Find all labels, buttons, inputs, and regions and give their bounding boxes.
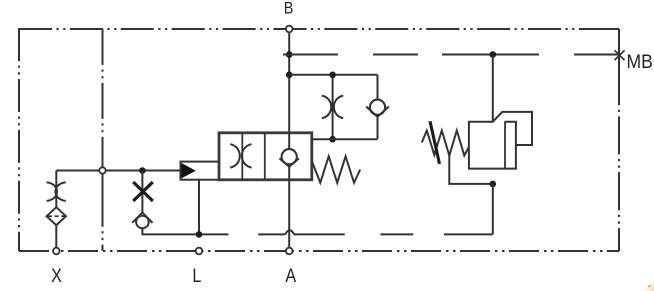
port A (286, 248, 293, 255)
wire: relief outlet drop to drain line (492, 184, 494, 235)
junction relief supply (490, 51, 497, 58)
pilot/gauge line B to MB (dashed) (283, 54, 338, 56)
relief valve spring (422, 131, 469, 156)
relief valve body (469, 122, 516, 169)
check valve in branch (ball with seat above) (136, 216, 149, 229)
section boundary dash at pilot port (102, 155, 104, 193)
wire: bypass orifice leg (332, 75, 334, 139)
port B (286, 26, 293, 33)
drain line to L (dashed) (258, 233, 285, 235)
main valve body (219, 133, 312, 180)
junction relief drain (490, 181, 497, 188)
svg-text:MB: MB (627, 50, 653, 72)
check valve in bypass (ball and seat) (370, 100, 385, 115)
wire: bypass bottom to valve body (312, 138, 378, 140)
wire: relief valve supply drop (492, 55, 494, 122)
enclosure right boundary upper segment (solid through MB) (618, 29, 620, 103)
wire: pilot box drain to L (198, 180, 200, 235)
port L (196, 248, 203, 255)
valve return spring (312, 156, 360, 183)
enclosure top boundary corner dash (597, 28, 619, 30)
junction L drain (196, 231, 203, 238)
watermark corner blob (640, 278, 654, 291)
orifice in X line (47, 182, 57, 201)
valve section divider 2 (264, 133, 266, 180)
throttle in bypass leg (322, 96, 331, 119)
junction bypass bottom (329, 136, 336, 143)
port MB plug marker (615, 50, 625, 60)
wire: bypass check valve leg (377, 75, 379, 100)
plugged orifice (X symbol) (133, 182, 153, 201)
enclosure top boundary (phantom line) (19, 28, 619, 30)
junction B line / gauge line (286, 51, 293, 58)
enclosure right boundary lower segment (phantom line) (618, 103, 620, 251)
wire: X pilot riser (55, 225, 57, 251)
crossover hop over A line (285, 230, 294, 234)
enclosure left boundary (phantom line) (18, 28, 20, 251)
svg-text:A: A (285, 265, 296, 287)
pilot actuator triangle (hydraulic pilot) (181, 163, 195, 178)
junction bypass top (329, 72, 336, 79)
wire: relief spring chamber drain (449, 156, 493, 184)
wire: B to A main line (288, 29, 290, 149)
relief valve adjustment stroke (430, 121, 440, 164)
relief valve pilot stage box (493, 112, 532, 145)
wire: branch down from pilot line to L drain (141, 171, 143, 214)
port X (53, 248, 60, 255)
wire: bypass branch top (289, 74, 377, 76)
throttle arcs on divider 1 (230, 144, 240, 167)
pilot actuator box (181, 162, 220, 180)
junction B line / bypass branch (286, 72, 293, 79)
filter in X line (47, 207, 66, 225)
watermark arrow tip (648, 284, 652, 288)
relief valve internal divider (504, 122, 506, 169)
valve section divider 1 (241, 133, 243, 180)
svg-text:B: B (284, 0, 294, 18)
svg-text:L: L (192, 265, 201, 287)
wire: pilot line X to pilot actuator (56, 170, 180, 172)
internal section boundary (vertical phantom line) (102, 29, 104, 251)
wire: check valve outlet to drain line (142, 228, 228, 234)
node: port opening on section boundary (99, 167, 105, 173)
enclosure bottom boundary (phantom line) (19, 250, 619, 252)
check valve inside valve (ball and seat) (282, 149, 297, 164)
junction at X-line branch (139, 167, 146, 174)
svg-text:X: X (51, 265, 62, 287)
